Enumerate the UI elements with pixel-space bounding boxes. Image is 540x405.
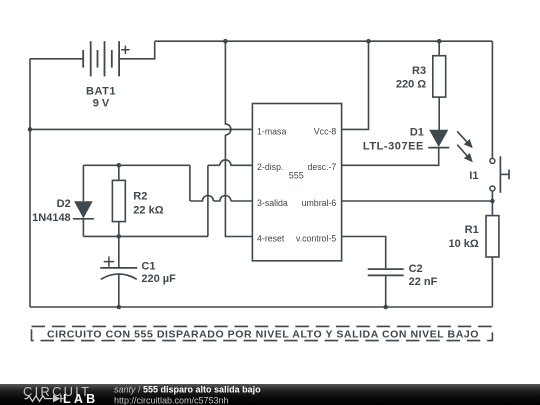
wire drop to pushbutton I1 [491, 41, 493, 158]
svg-text:santy / 555 disparo alto salid: santy / 555 disparo alto salida bajo [114, 385, 261, 395]
svg-text:4-reset: 4-reset [257, 233, 285, 243]
junction dot left rail masa [28, 127, 33, 132]
wire R2 bottom [118, 222, 120, 237]
svg-text:D2: D2 [57, 198, 71, 210]
wire R3 top [438, 41, 440, 56]
wire output pin3 with two hops [190, 165, 253, 201]
logo resistor zigzag and diode [25, 395, 64, 403]
wire desc-7 to D1 cathode [342, 148, 439, 166]
wire Vcc-8 pin to top rail [342, 41, 369, 129]
svg-text:BAT1: BAT1 [86, 86, 116, 98]
junction dot C1 bottom rail [117, 305, 122, 310]
junction dot top rail R3 [437, 39, 442, 44]
resistor R1 [486, 216, 499, 257]
wire top supply rail [155, 40, 493, 42]
wire R3 bottom to D1 [438, 97, 440, 130]
svg-text:220 µF: 220 µF [141, 273, 176, 285]
svg-text:R1: R1 [465, 224, 479, 236]
wire left rail [29, 59, 31, 307]
wire battery negative to left rail [30, 58, 83, 60]
svg-text:1N4148: 1N4148 [32, 212, 71, 224]
svg-text:C1: C1 [141, 261, 155, 273]
wire R2 top [118, 165, 120, 180]
svg-text:C2: C2 [409, 263, 423, 275]
diode D2 [73, 201, 94, 219]
wire C2 bottom [385, 276, 387, 307]
wire umbral-6 to pushbutton node [342, 200, 493, 202]
junction dot top rail vcc vertical [223, 39, 228, 44]
svg-text:desc.-7: desc.-7 [307, 162, 336, 172]
junction dot C2 bottom rail [383, 305, 388, 310]
svg-text:1-masa: 1-masa [257, 126, 286, 136]
svg-text:220 Ω: 220 Ω [396, 79, 426, 91]
battery plus sign [121, 46, 129, 54]
svg-text:LAB: LAB [63, 392, 98, 405]
svg-text:9 V: 9 V [93, 97, 110, 109]
wire pushbutton bottom to R1 top [491, 192, 493, 216]
wire v.control-5 to C2 [342, 237, 386, 269]
junction dot R2 top [117, 163, 122, 168]
wire right riser to R1 bottom [491, 257, 493, 307]
svg-text:22 kΩ: 22 kΩ [133, 205, 163, 217]
LED D1 light arrows [457, 131, 473, 162]
svg-text:D1: D1 [410, 127, 424, 139]
wire trigger pin2 with hop [208, 160, 253, 166]
wire D2 cathode down [82, 219, 84, 237]
junction dot R2 bottom [117, 234, 122, 239]
svg-text:10 kΩ: 10 kΩ [448, 238, 478, 250]
LED D1 [428, 130, 449, 148]
battery BAT1 [83, 41, 119, 76]
pushbutton I1 [490, 156, 509, 193]
svg-text:umbral-6: umbral-6 [302, 198, 337, 208]
wire bottom ground rail [30, 306, 492, 308]
resistor R2 [112, 180, 125, 221]
title dashed box [32, 326, 493, 340]
resistor R3 [433, 56, 446, 97]
logo diode triangle [53, 395, 61, 403]
capacitor C1 polarized [100, 268, 137, 279]
wire masa pin1 [30, 128, 252, 130]
svg-text:I1: I1 [469, 170, 478, 182]
wire vcc vertical to reset pin4 with hop [225, 41, 252, 236]
footer bar [0, 384, 540, 405]
wire C1 bottom [118, 274, 120, 307]
svg-text:Vcc-8: Vcc-8 [314, 126, 337, 136]
svg-text:v.control-5: v.control-5 [296, 233, 337, 243]
junction dot top rail vcc8 [366, 39, 371, 44]
wire trigger bottom run [83, 235, 207, 237]
svg-text:R3: R3 [412, 65, 426, 77]
wire D2 anode up [82, 165, 84, 201]
C1 plus sign [104, 256, 114, 266]
wire trigger vertical [207, 165, 209, 236]
svg-text:2-disp.: 2-disp. [257, 162, 283, 172]
svg-text:LTL-307EE: LTL-307EE [363, 141, 424, 153]
IC U1 555 box [252, 104, 341, 261]
capacitor C2 [368, 269, 404, 275]
svg-text:3-salida: 3-salida [257, 198, 288, 208]
svg-text:555: 555 [289, 170, 304, 180]
junction dot umbral pushbutton [490, 199, 495, 204]
svg-text:CIRCUITO CON 555 DISPARADO POR: CIRCUITO CON 555 DISPARADO POR NIVEL ALT… [47, 328, 479, 340]
svg-text:R2: R2 [133, 191, 147, 203]
svg-text:22 nF: 22 nF [409, 276, 438, 288]
svg-text:http://circuitlab.com/c5753nh: http://circuitlab.com/c5753nh [114, 395, 229, 405]
wire output top run R2 D2 [83, 164, 189, 166]
wire battery positive step up [119, 41, 155, 59]
wire C1 top [118, 236, 120, 268]
